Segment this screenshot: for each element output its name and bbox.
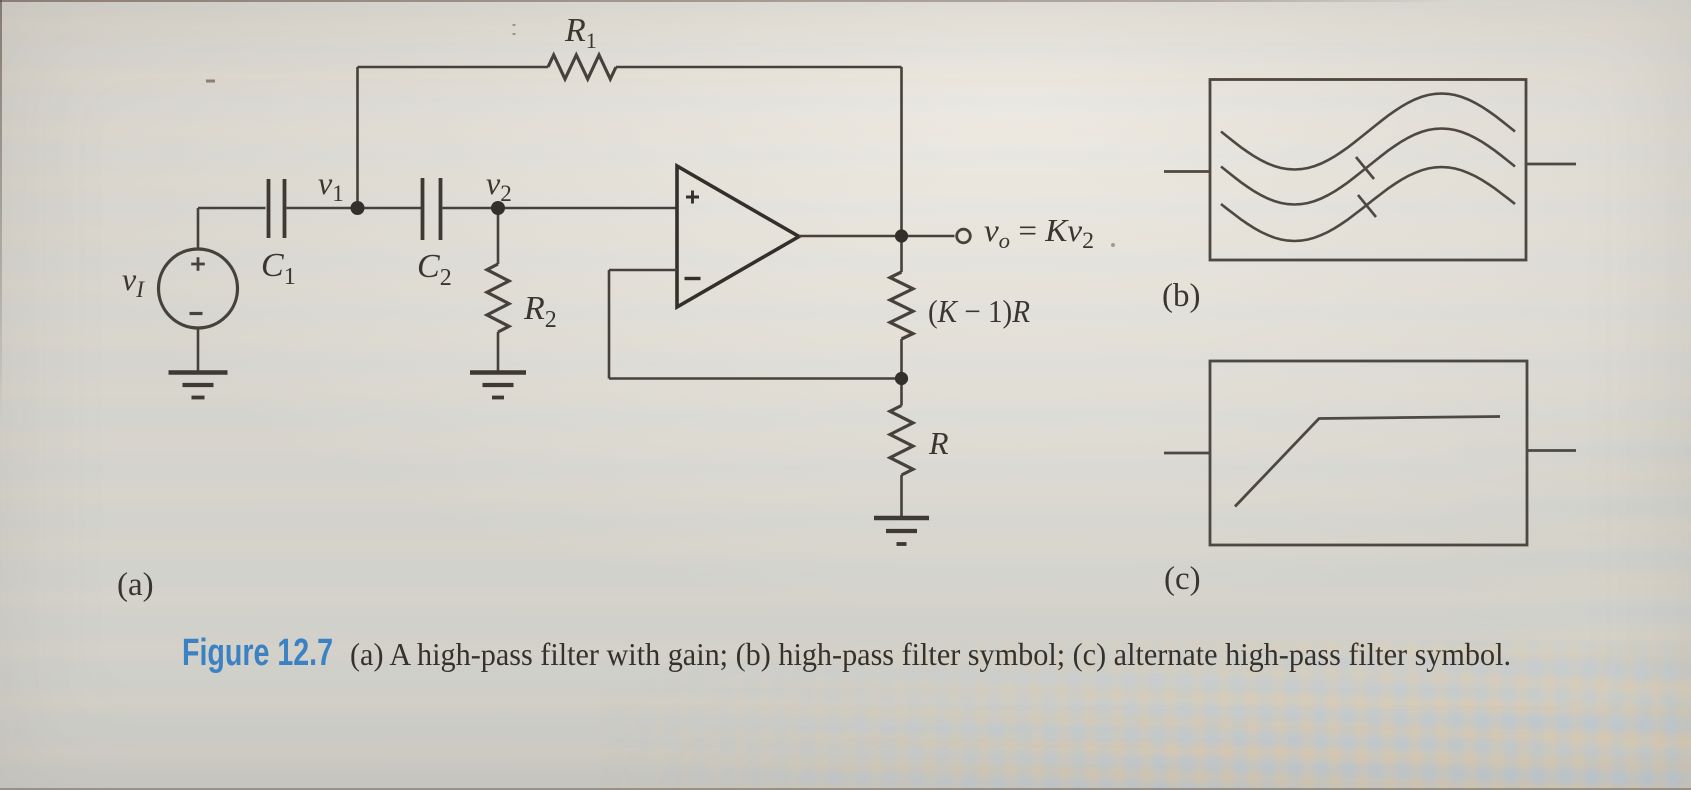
resistor (K-1)R bbox=[890, 272, 913, 339]
stray mark period bbox=[1111, 243, 1115, 247]
wire v1 up to feedback rail bbox=[356, 67, 359, 208]
capacitor C2 bbox=[423, 178, 441, 240]
wire R2 to ground bbox=[497, 332, 500, 371]
wire v2 down to R2 bbox=[497, 208, 500, 264]
wire op-amp output bbox=[799, 235, 955, 238]
filter symbol box (c) bbox=[1210, 361, 1527, 545]
wire top rail right of R1 bbox=[616, 66, 902, 69]
wire v1 to C2 bbox=[358, 207, 422, 210]
wire source top lead bbox=[197, 208, 200, 249]
wire R to ground bbox=[900, 475, 903, 517]
box (c) input lead bbox=[1164, 452, 1210, 455]
wire op-amp inverting input bbox=[609, 269, 677, 272]
wire C1 to node v1 bbox=[287, 207, 358, 210]
ground (source) bbox=[169, 373, 228, 398]
wire source to C1 bbox=[198, 207, 266, 210]
voltage source vI bbox=[159, 249, 238, 328]
node v1 junction dot bbox=[351, 201, 365, 215]
wire source bottom lead bbox=[197, 328, 200, 371]
wire (K-1)R to divider node bbox=[900, 339, 903, 379]
box (c) output lead bbox=[1527, 449, 1576, 452]
stray mark colon bbox=[513, 24, 516, 35]
box (b) wave 3 bbox=[1221, 167, 1515, 241]
box (b) cross mark on wave 3 bbox=[1358, 195, 1376, 217]
resistor R bbox=[890, 406, 913, 476]
box (b) input lead bbox=[1164, 170, 1210, 173]
wire v2 to op-amp + input bbox=[498, 207, 677, 210]
wire output node down to (K-1)R bbox=[900, 236, 903, 272]
wire C2 to node v2 bbox=[443, 207, 499, 210]
wire top rail left of R1 bbox=[358, 66, 549, 69]
node v2 junction dot bbox=[491, 201, 505, 215]
resistor R2 bbox=[487, 264, 509, 332]
box (b) wave 1 bbox=[1221, 94, 1515, 170]
wire feedback vertical bbox=[608, 270, 611, 379]
filter symbol box (b) bbox=[1210, 80, 1526, 261]
op-amp U1 bbox=[677, 166, 799, 307]
capacitor C1 bbox=[269, 179, 285, 238]
box (b) output lead bbox=[1526, 163, 1576, 166]
stray mark dash bbox=[206, 80, 215, 83]
ground (R) bbox=[874, 518, 929, 544]
box (c) high-pass response curve bbox=[1235, 417, 1500, 507]
output node junction dot bbox=[895, 229, 908, 242]
box (b) cross mark on wave 2 bbox=[1356, 157, 1374, 179]
ground (R2) bbox=[470, 373, 526, 398]
wire right rail down to output node bbox=[900, 67, 903, 236]
wire divider node down to R bbox=[900, 379, 903, 406]
output terminal circle bbox=[957, 229, 971, 243]
divider node junction dot bbox=[895, 372, 908, 385]
wire feedback horizontal to divider node bbox=[609, 377, 902, 380]
box (b) wave 2 bbox=[1221, 129, 1515, 205]
resistor R1 bbox=[548, 55, 616, 79]
